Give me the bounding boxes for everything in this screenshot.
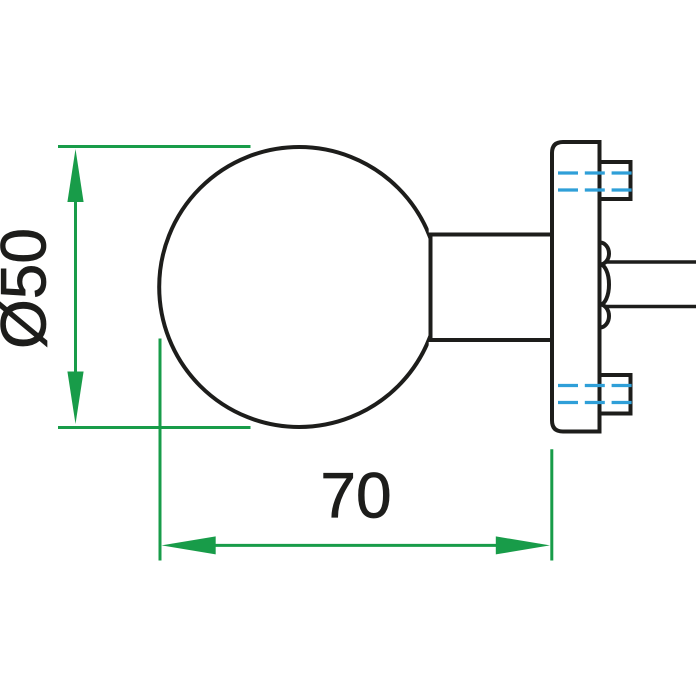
svg-text:Ø50: Ø50	[0, 228, 60, 349]
arrow up	[67, 149, 83, 202]
dim extension line top	[58, 145, 251, 148]
knob chord vertical	[429, 233, 433, 343]
70 extension line left	[159, 339, 162, 561]
dim extension line bottom	[58, 426, 251, 429]
70 extension line right	[550, 449, 553, 560]
rose plate	[552, 142, 600, 432]
bottom screw	[600, 375, 631, 414]
vertical dimension line	[74, 160, 77, 414]
blue hidden lines bottom screw	[558, 384, 633, 387]
spindle top line	[606, 260, 696, 264]
horizontal dimension line	[172, 544, 540, 547]
arrow right	[496, 536, 550, 554]
top screw	[600, 162, 631, 199]
arrow left	[162, 536, 216, 554]
neck bottom line	[429, 338, 553, 342]
knob head (circle, right sliver clipped)	[159, 147, 439, 427]
neck top line	[429, 233, 553, 237]
spindle bottom line	[606, 305, 696, 309]
blue hidden lines top screw	[558, 171, 633, 174]
arrow down	[67, 372, 83, 425]
hub bumps on plate right edge	[600, 243, 609, 328]
svg-text:70: 70	[320, 460, 391, 532]
